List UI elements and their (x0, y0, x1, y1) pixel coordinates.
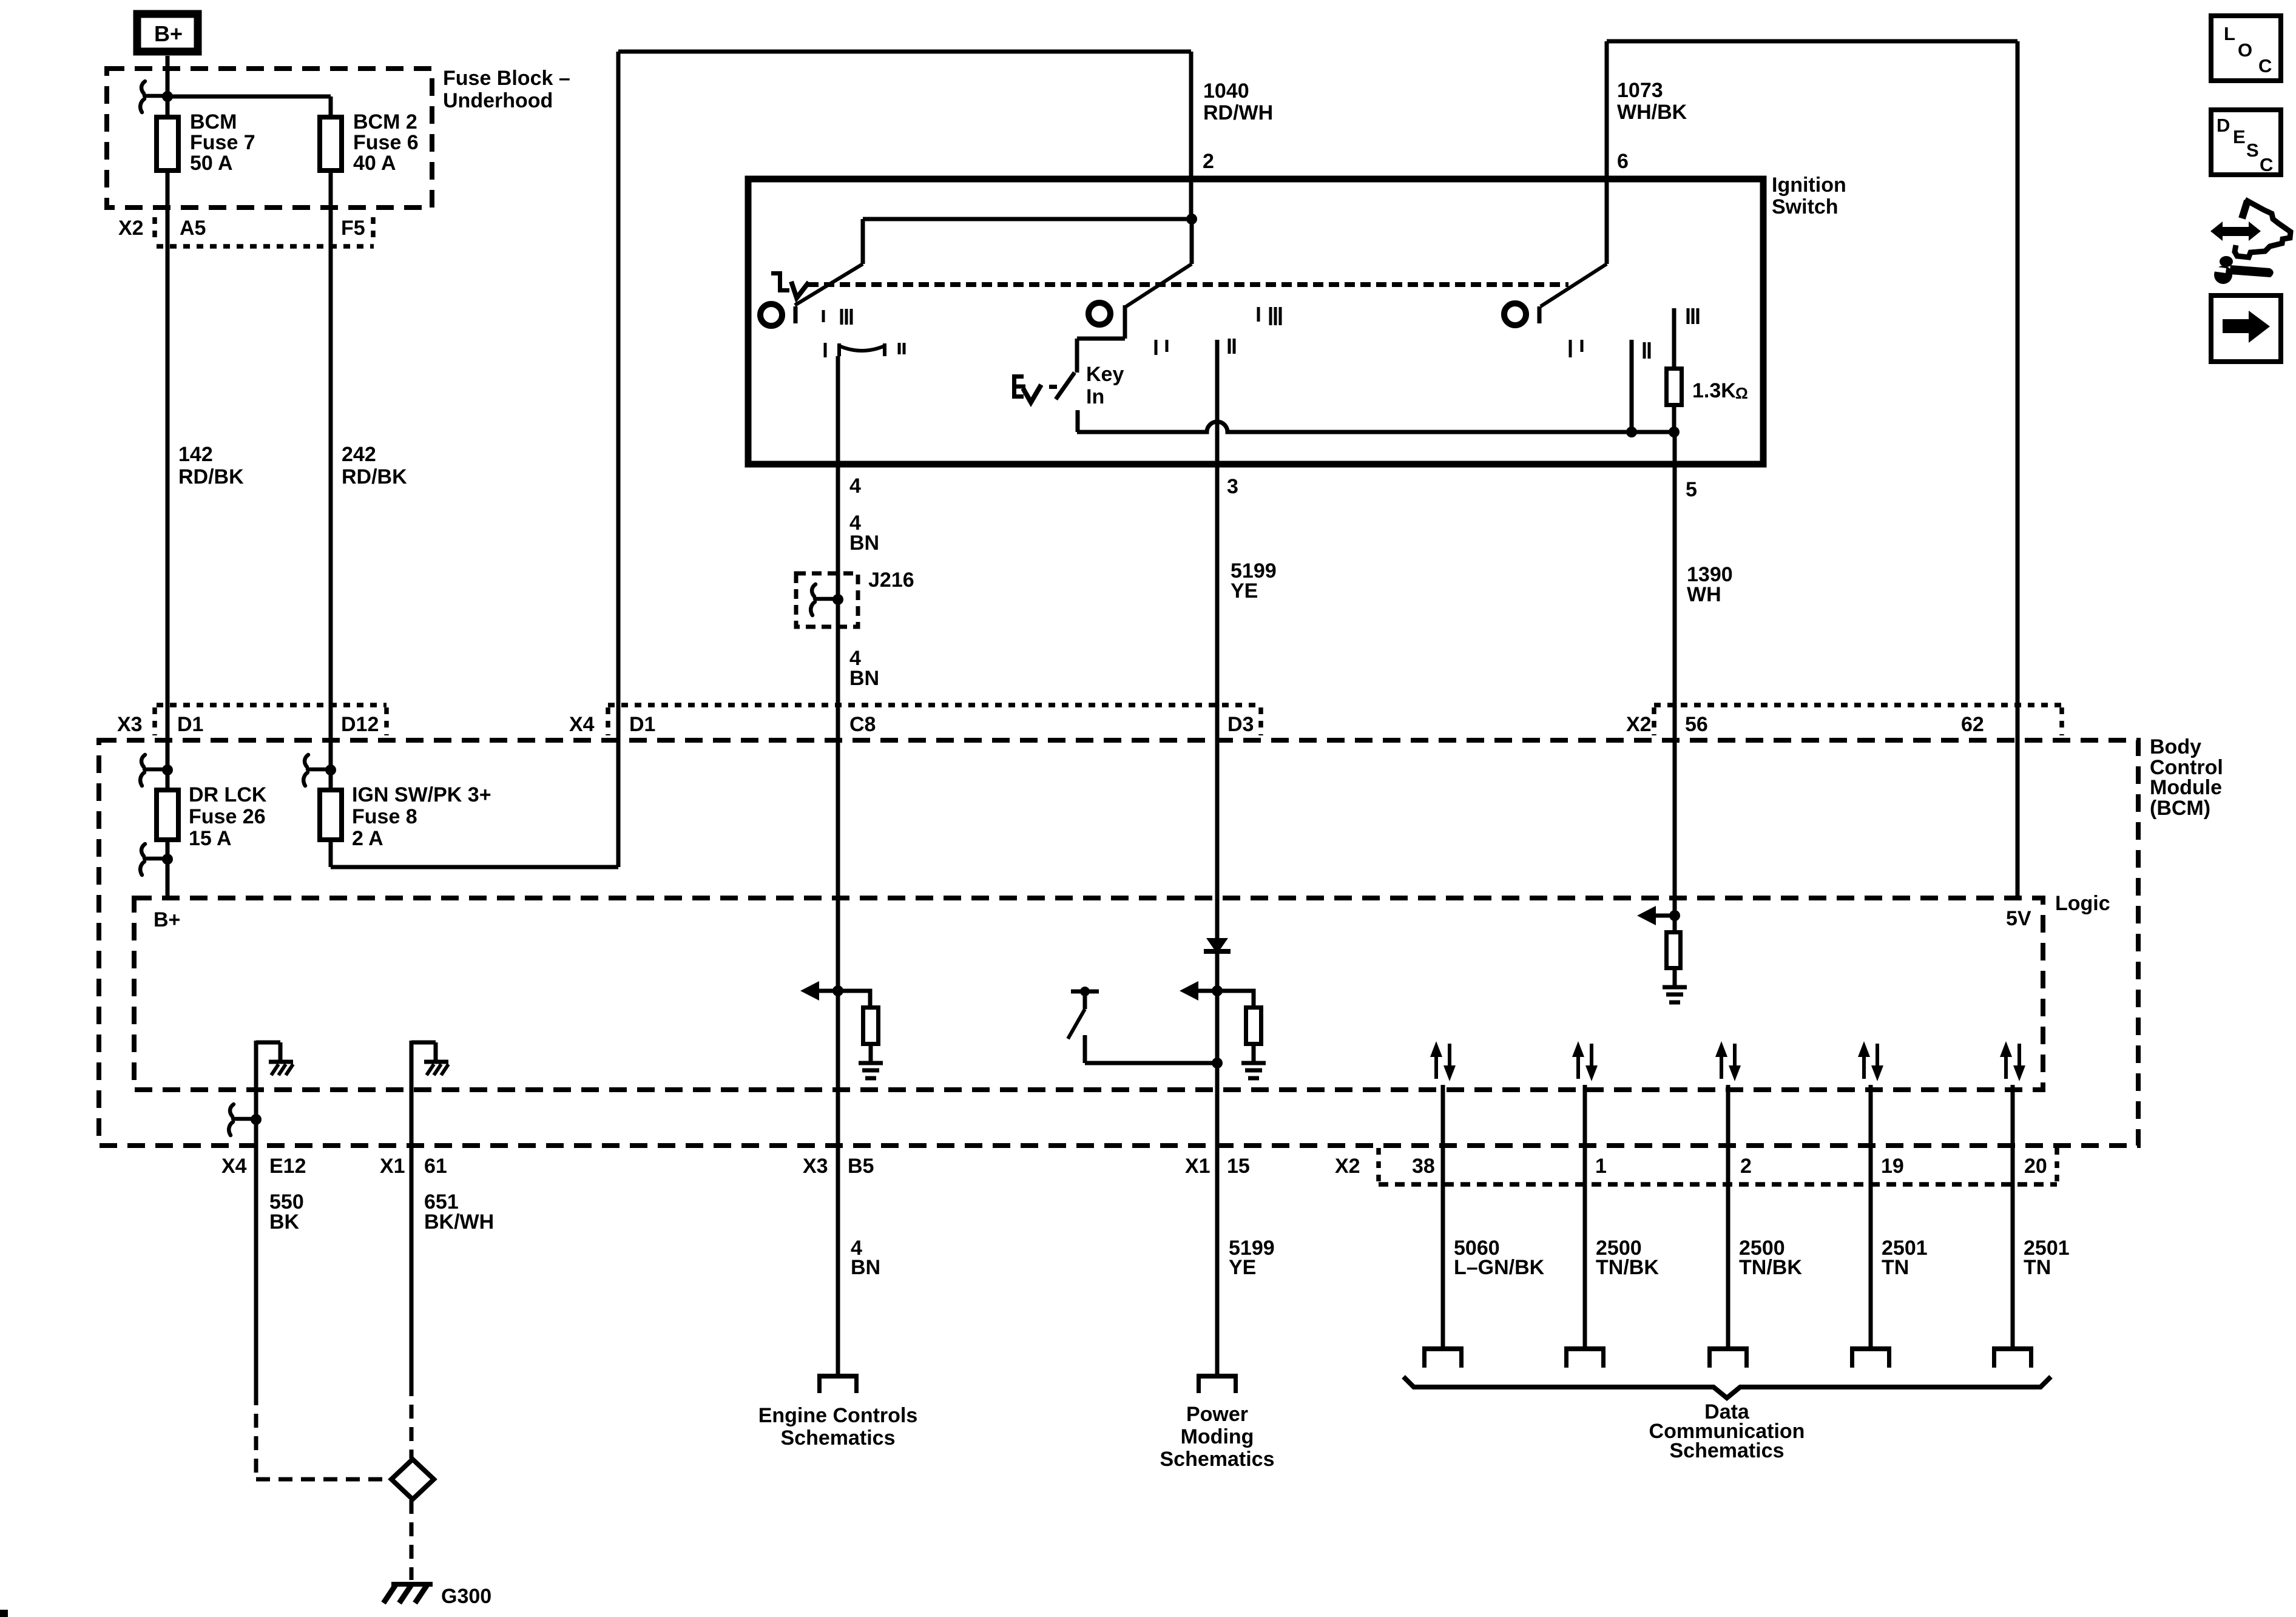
svg-text:56: 56 (1685, 713, 1708, 736)
svg-text:Engine Controls: Engine Controls (758, 1404, 918, 1427)
svg-text:C: C (2258, 55, 2272, 76)
svg-text:X2: X2 (1626, 713, 1652, 736)
svg-text:2: 2 (1203, 150, 1214, 173)
svg-text:Fuse Block –: Fuse Block – (443, 67, 570, 90)
svg-text:4: 4 (849, 474, 861, 498)
svg-text:B+: B+ (154, 21, 183, 46)
svg-text:Schematics: Schematics (1160, 1448, 1275, 1471)
svg-text:Moding: Moding (1181, 1425, 1254, 1448)
svg-text:(BCM): (BCM) (2150, 797, 2210, 820)
svg-text:15: 15 (1227, 1155, 1250, 1178)
svg-text:TN: TN (2024, 1256, 2051, 1279)
svg-text:IGN SW/PK 3+: IGN SW/PK 3+ (352, 783, 491, 806)
svg-text:TN/BK: TN/BK (1596, 1256, 1659, 1279)
svg-text:BCM: BCM (190, 110, 237, 133)
svg-text:E: E (2233, 126, 2246, 147)
svg-text:20: 20 (2024, 1155, 2047, 1178)
svg-text:B+: B+ (154, 908, 180, 931)
svg-text:D: D (2217, 115, 2230, 136)
svg-text:X3: X3 (803, 1155, 828, 1178)
svg-text:RD/BK: RD/BK (342, 465, 407, 488)
svg-text:F5: F5 (341, 217, 365, 240)
svg-text:E12: E12 (269, 1155, 306, 1178)
svg-text:D12: D12 (341, 713, 379, 736)
svg-text:BN: BN (849, 532, 879, 555)
svg-text:J216: J216 (868, 569, 914, 592)
svg-text:TN/BK: TN/BK (1739, 1256, 1802, 1279)
svg-text:3: 3 (1227, 475, 1238, 498)
svg-text:Body: Body (2150, 735, 2201, 758)
svg-text:Switch: Switch (1772, 195, 1838, 218)
svg-text:Underhood: Underhood (443, 89, 553, 112)
svg-text:38: 38 (1412, 1155, 1435, 1178)
svg-text:TN: TN (1882, 1256, 1909, 1279)
svg-text:O: O (2238, 39, 2252, 61)
svg-text:242: 242 (342, 443, 376, 466)
svg-text:L: L (2224, 23, 2235, 44)
svg-text:DR LCK: DR LCK (189, 783, 267, 806)
svg-text:Power: Power (1186, 1403, 1248, 1426)
svg-text:1.3K: 1.3K (1692, 379, 1736, 402)
svg-text:Key: Key (1086, 363, 1124, 386)
svg-text:BK: BK (269, 1210, 300, 1234)
svg-text:Schematics: Schematics (1670, 1439, 1784, 1462)
svg-text:X1: X1 (380, 1155, 405, 1178)
svg-text:5V: 5V (2006, 907, 2031, 930)
svg-text:61: 61 (424, 1155, 447, 1178)
svg-text:Fuse 7: Fuse 7 (190, 131, 255, 154)
svg-text:C: C (2260, 154, 2273, 175)
svg-text:BN: BN (851, 1256, 880, 1279)
svg-text:Fuse 26: Fuse 26 (189, 805, 266, 828)
svg-text:WH/BK: WH/BK (1617, 101, 1687, 124)
svg-text:BN: BN (849, 667, 879, 690)
svg-text:5: 5 (1686, 478, 1697, 501)
svg-text:50 A: 50 A (190, 152, 233, 175)
svg-text:X3: X3 (117, 713, 143, 736)
svg-text:BCM 2: BCM 2 (353, 110, 417, 133)
svg-text:S: S (2246, 140, 2259, 161)
svg-text:6: 6 (1617, 150, 1629, 173)
svg-text:Schematics: Schematics (781, 1426, 896, 1450)
svg-text:RD/BK: RD/BK (178, 465, 244, 488)
svg-text:D1: D1 (177, 713, 203, 736)
svg-text:D3: D3 (1227, 713, 1254, 736)
svg-text:1: 1 (1595, 1155, 1607, 1178)
svg-text:2: 2 (1740, 1155, 1752, 1178)
svg-text:15 A: 15 A (189, 827, 232, 850)
svg-text:Logic: Logic (2055, 892, 2110, 915)
svg-text:D1: D1 (629, 713, 655, 736)
svg-text:BK/WH: BK/WH (424, 1210, 494, 1234)
svg-text:142: 142 (178, 443, 213, 466)
svg-text:G300: G300 (441, 1585, 491, 1608)
svg-text:C8: C8 (849, 713, 876, 736)
svg-text:Fuse 8: Fuse 8 (352, 805, 417, 828)
svg-text:B5: B5 (848, 1155, 874, 1178)
svg-text:X4: X4 (221, 1155, 247, 1178)
svg-text:X1: X1 (1185, 1155, 1210, 1178)
svg-text:2 A: 2 A (352, 827, 383, 850)
svg-text:RD/WH: RD/WH (1203, 101, 1273, 124)
svg-text:X4: X4 (569, 713, 595, 736)
svg-text:YE: YE (1229, 1256, 1256, 1279)
svg-text:L–GN/BK: L–GN/BK (1454, 1256, 1545, 1279)
svg-text:Ignition: Ignition (1772, 174, 1846, 197)
svg-text:X2: X2 (1335, 1155, 1360, 1178)
svg-text:1073: 1073 (1617, 79, 1663, 102)
svg-text:1040: 1040 (1203, 79, 1249, 103)
svg-text:In: In (1086, 385, 1104, 408)
svg-text:WH: WH (1687, 583, 1721, 606)
svg-text:YE: YE (1231, 579, 1258, 603)
svg-text:X2: X2 (118, 217, 144, 240)
svg-text:19: 19 (1881, 1155, 1904, 1178)
svg-text:Fuse 6: Fuse 6 (353, 131, 419, 154)
svg-text:62: 62 (1961, 713, 1984, 736)
svg-text:40 A: 40 A (353, 152, 396, 175)
svg-text:A5: A5 (180, 217, 206, 240)
svg-text:Module: Module (2150, 776, 2222, 799)
svg-text:Ω: Ω (1735, 384, 1748, 402)
